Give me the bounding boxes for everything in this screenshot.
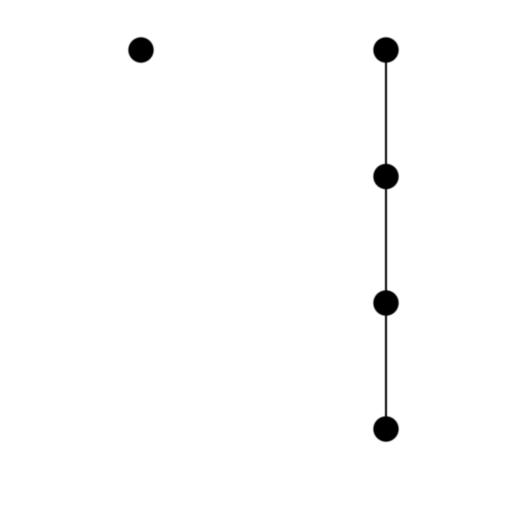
- node C: [373, 164, 398, 189]
- wire edge B-C: [385, 50, 387, 177]
- node D: [373, 290, 398, 315]
- node E: [373, 416, 398, 441]
- node B: [373, 37, 398, 62]
- wire edge D-E: [385, 303, 387, 429]
- node A (isolated): [128, 37, 153, 62]
- wire edge C-D: [385, 177, 387, 304]
